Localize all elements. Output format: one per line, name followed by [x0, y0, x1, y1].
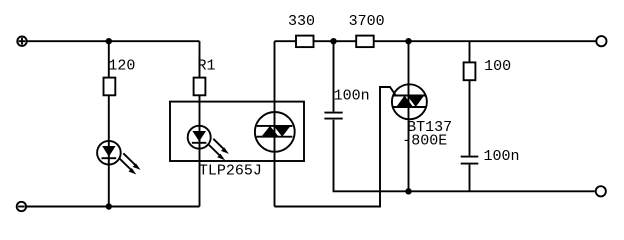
svg-text:TLP265J: TLP265J — [199, 163, 262, 180]
wire opto triac branch vertical — [274, 41, 276, 206]
svg-text:100: 100 — [484, 58, 511, 75]
svg-text:3700: 3700 — [349, 13, 385, 30]
wire R1 branch upper — [199, 41, 201, 77]
terminal X1-2 (-) — [17, 202, 26, 211]
svg-text:120: 120 — [108, 58, 135, 75]
wire snubber branch upper — [469, 41, 471, 62]
capacitor C1 100n — [324, 113, 342, 119]
svg-text:R1: R1 — [198, 58, 216, 75]
node junction bottom-left — [106, 203, 112, 209]
terminal X2-1 top right — [596, 36, 606, 46]
svg-text:100n: 100n — [334, 88, 370, 105]
node junction top-left — [106, 38, 112, 44]
wire C1 branch upper — [333, 41, 335, 111]
wire top-left rail — [27, 40, 199, 42]
svg-text:100n: 100n — [484, 148, 520, 165]
wire top-right rail segment b — [314, 40, 357, 42]
optocoupler U1 box — [170, 102, 304, 161]
wire snubber branch lower — [469, 165, 471, 192]
resistor R1 — [194, 78, 206, 96]
opto LED — [188, 124, 229, 160]
LED indicator — [97, 141, 141, 175]
resistor 3700 — [356, 36, 374, 48]
resistor 330 — [296, 36, 314, 48]
resistor 100 — [464, 62, 476, 80]
wire gate run from opto to BT137 — [275, 87, 396, 207]
terminal X2-2 bottom right — [596, 186, 606, 196]
svg-text:330: 330 — [288, 13, 315, 30]
wire BT137 branch vertical — [408, 41, 410, 191]
wire top-right rail segment a — [275, 40, 297, 42]
node junction 3700/BT137 — [405, 38, 411, 44]
resistor 120 — [104, 78, 116, 96]
wire R1 to opto LED and cathode down — [199, 96, 201, 207]
triac BT137 — [392, 84, 427, 119]
wire top-right rail segment c — [374, 40, 596, 42]
node junction BT137/C1/rail bottom — [405, 188, 411, 194]
wire C1 branch lower — [334, 120, 409, 192]
wire bottom-right rail — [409, 190, 595, 192]
wire bottom-left rail — [27, 206, 200, 208]
capacitor C2 100n — [461, 157, 479, 164]
terminal X1-1 (+) — [17, 37, 26, 46]
wire snubber branch middle — [469, 80, 471, 155]
wire 120 branch lower through LED — [108, 96, 110, 207]
node junction 330/3700/C1 — [330, 38, 336, 44]
wire 120 branch upper — [108, 41, 110, 77]
opto triac — [255, 112, 295, 152]
svg-text:-800E: -800E — [402, 132, 447, 149]
